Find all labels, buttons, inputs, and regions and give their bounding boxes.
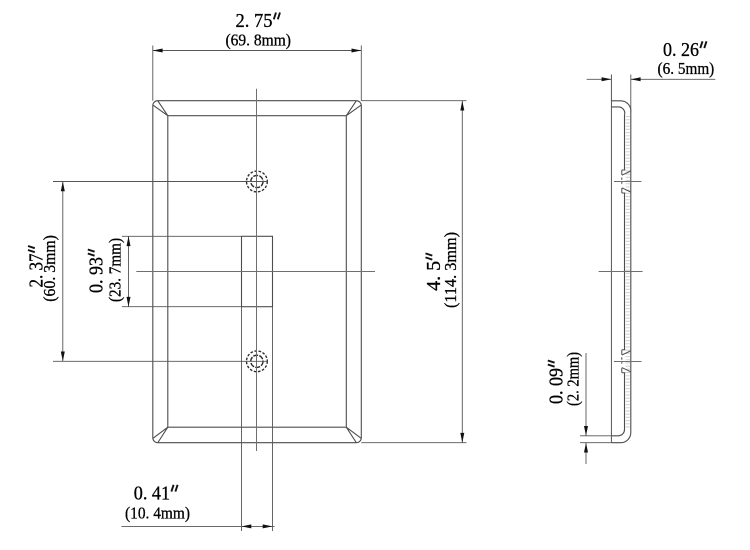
extension line opening top: [122, 235, 242, 237]
extension line 0.26 right: [630, 75, 632, 113]
svg-text:(2. 2mm): (2. 2mm): [564, 352, 583, 406]
label 23.7mm (rotated): [105, 238, 124, 302]
arrow 0.93 top: [127, 236, 131, 246]
dimension line 0.41in: [122, 525, 275, 527]
dimension line 4.5in: [461, 101, 463, 443]
screw hole bottom: inner circle: [251, 355, 263, 367]
side view inner top edge + arc: [611, 107, 624, 115]
label 6.5mm: [658, 59, 715, 78]
bottom screw centerline (side): [614, 361, 642, 363]
centerlines front view: [136, 89, 375, 451]
arrow 0.41 right: [263, 524, 273, 528]
dimension line 2.37in: [62, 182, 64, 362]
screw hole top: inner circle: [251, 175, 263, 187]
arrow 2.37 top: [61, 182, 65, 192]
svg-text:0. 41: 0. 41: [134, 483, 170, 504]
extension line top-left width: [152, 46, 154, 101]
screw hole bottom: outer dashed circle: [247, 351, 268, 372]
svg-text:0. 93: 0. 93: [86, 257, 107, 293]
side view outer face: [630, 112, 632, 433]
svg-text:0. 26: 0. 26: [663, 40, 699, 61]
svg-text:(6. 5mm): (6. 5mm): [658, 59, 715, 78]
svg-text:(69. 8mm): (69. 8mm): [225, 31, 291, 50]
wallplate outer outline (front view): [153, 101, 361, 443]
countersink detail top screw: [622, 170, 631, 193]
dimension line 2.75in: [153, 50, 361, 52]
dimension line 0.93in: [128, 236, 130, 306]
arrowheads front view: [61, 49, 465, 529]
arrow 2.75 right: [352, 49, 362, 53]
side view back edge line: [610, 75, 612, 443]
arrow 0.09 up: [584, 443, 588, 453]
extension line bottom screw: [53, 360, 268, 362]
label 0.09in (rotated): [546, 361, 567, 405]
corner bevel line top-right: [346, 101, 361, 116]
label 60.3mm (rotated): [40, 235, 59, 302]
screw hole top: outer dashed circle: [247, 171, 268, 192]
corner bevel line bottom-right: [346, 427, 361, 442]
extension line 0.09 upper: [580, 435, 611, 437]
extension line opening bottom: [122, 306, 242, 308]
extension line top-right width: [360, 46, 362, 101]
wallplate inner bevel outline (front view): [168, 116, 346, 428]
side view centerlines: [599, 182, 643, 362]
arrow 4.5 bottom: [460, 433, 464, 443]
svg-text:(10. 4mm): (10. 4mm): [125, 504, 190, 523]
arrow 0.26 right: [631, 77, 641, 81]
dimension line 0.26 right tail: [631, 78, 716, 80]
arrow 2.75 left: [153, 49, 163, 53]
countersink detail bottom screw: [622, 350, 631, 373]
svg-text:(114. 3mm): (114. 3mm): [441, 232, 460, 308]
side view outer top edge + corner arc: [611, 101, 630, 112]
svg-text:(23. 7mm): (23. 7mm): [105, 238, 124, 302]
label 0.41in: [134, 483, 178, 504]
extension line right bottom: [361, 442, 466, 444]
label 114.3mm (rotated): [441, 232, 460, 308]
label 0.93in (rotated): [86, 250, 107, 294]
arrow 0.41 left: [242, 524, 252, 528]
corner bevel line bottom-left: [153, 427, 168, 442]
label 10.4mm: [125, 504, 190, 523]
label 0.26in: [663, 40, 707, 61]
arrow 0.09 down: [584, 426, 588, 436]
side view inner bottom edge + arc: [611, 430, 624, 436]
side view dimension lines: [580, 75, 715, 465]
arrow 2.37 bottom: [61, 352, 65, 362]
section hatch band: [626, 116, 630, 429]
toggle switch opening: [242, 236, 273, 306]
extension line 0.09 lower: [580, 442, 611, 444]
label 69.8mm: [225, 31, 291, 50]
arrow 4.5 top: [460, 101, 464, 111]
horizontal centerline (side): [599, 271, 643, 273]
dimension line 0.09 upper tail: [585, 353, 587, 436]
dimension/extension lines front view: [53, 46, 467, 532]
extension line top screw: [53, 181, 268, 183]
label 2.2mm (rotated): [564, 352, 583, 406]
arrow 0.26 left: [602, 77, 612, 81]
extension line right top: [361, 100, 466, 102]
corner bevel line top-left: [153, 101, 168, 116]
extension line opening right edge down: [272, 307, 274, 531]
side view arrowheads: [584, 77, 641, 452]
side view inner face segments: [624, 115, 626, 430]
dimension line 0.26 left tail: [587, 78, 612, 80]
dimension line 0.09 lower tail: [585, 443, 587, 464]
horizontal centerline: [136, 271, 375, 273]
svg-text:(60. 3mm): (60. 3mm): [40, 235, 59, 302]
extension line opening left edge down: [241, 307, 243, 531]
arrow 0.93 bottom: [127, 297, 131, 307]
svg-text:2. 75: 2. 75: [236, 11, 273, 32]
side view outer bottom edge + arc: [611, 433, 630, 443]
label 2.75in: [236, 11, 281, 32]
top screw centerline (side): [614, 181, 642, 183]
label 4.5in (rotated): [424, 253, 445, 291]
label 2.37in (rotated): [27, 246, 48, 288]
vertical centerline: [256, 89, 258, 451]
